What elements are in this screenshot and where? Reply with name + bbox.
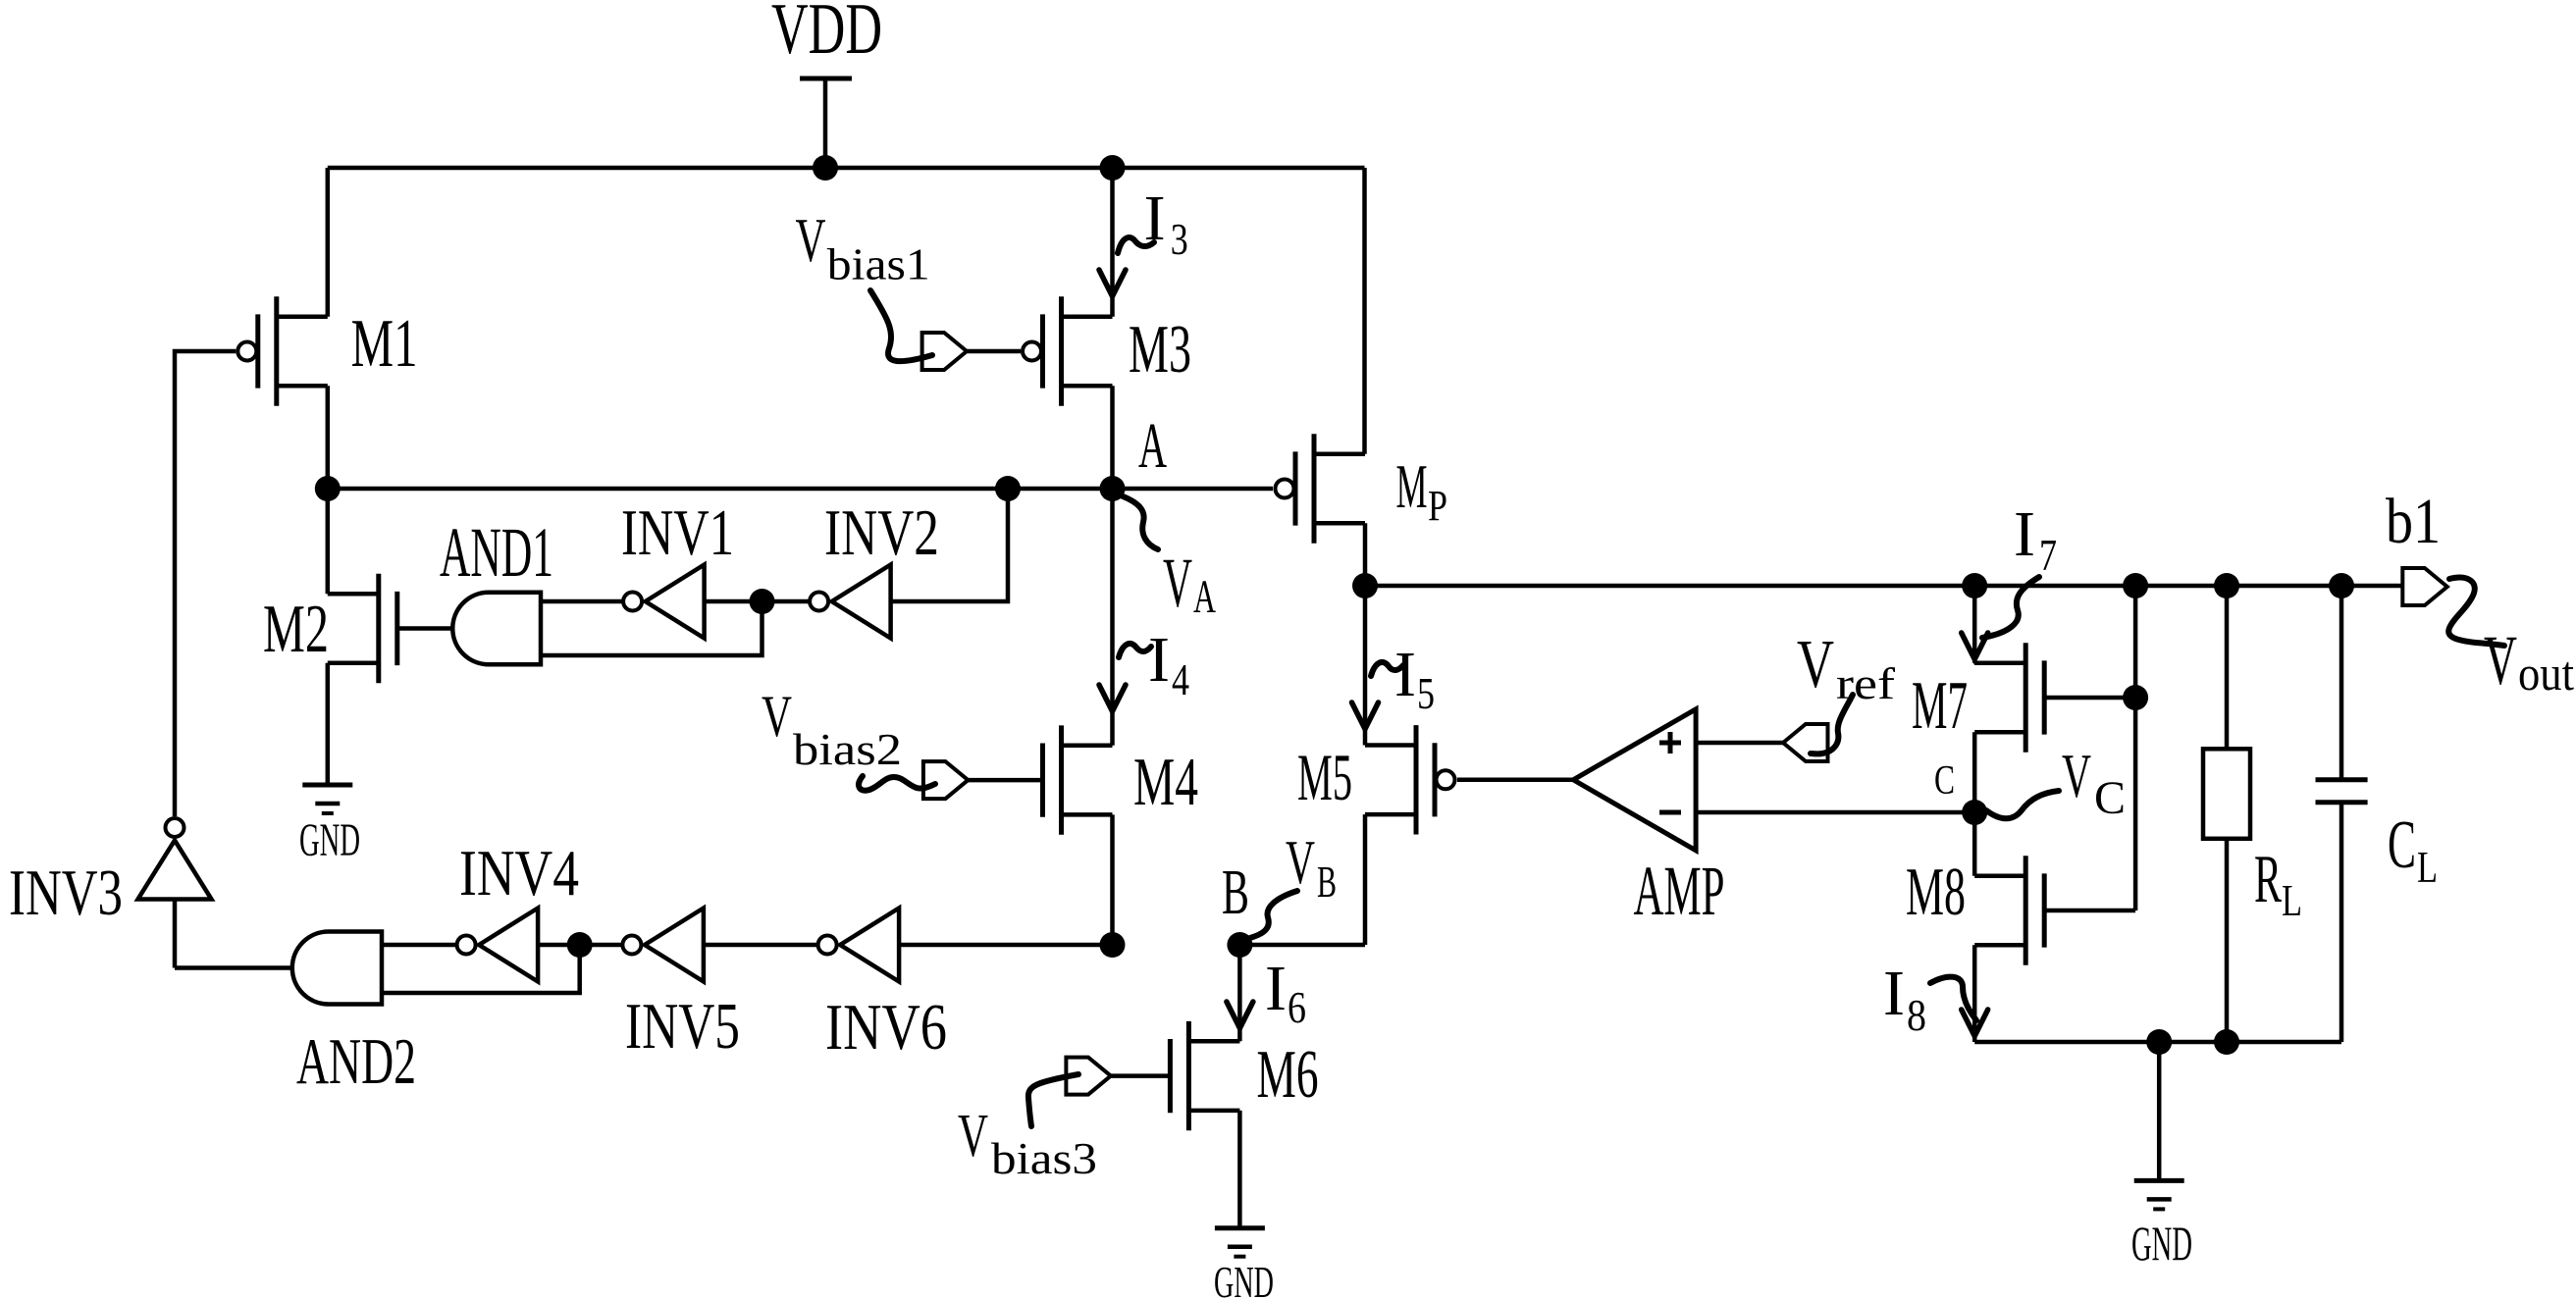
svg-text:V: V	[2484, 621, 2517, 700]
svg-text:3: 3	[1171, 214, 1188, 264]
wire INV6 out to INV5 in	[704, 943, 816, 948]
svg-text:L: L	[2417, 842, 2438, 892]
AND gate AND1	[452, 593, 541, 665]
wire MP drain to output rail	[1363, 523, 1368, 586]
svg-text:P: P	[1428, 482, 1447, 530]
svg-text:V: V	[1797, 627, 1834, 702]
wire INV4 out to AND2 input A	[382, 943, 455, 948]
svg-text:V: V	[958, 1103, 988, 1169]
svg-text:AND2: AND2	[296, 1025, 416, 1098]
wire INV1 in	[705, 599, 762, 604]
svg-text:B: B	[1317, 857, 1337, 907]
svg-text:8: 8	[1907, 990, 1926, 1040]
wire to AND2 input B	[382, 945, 580, 993]
transistor M5 (PMOS)	[1365, 725, 1455, 834]
wire node-A row	[328, 487, 1273, 492]
wire M8 gate	[2044, 909, 2135, 913]
node A junction	[1100, 476, 1126, 501]
wire Vbias1 to M3 gate	[967, 349, 1021, 354]
wire M3 drain to rail	[1110, 168, 1115, 317]
svg-text:M2: M2	[263, 592, 329, 667]
wire AND2 out	[175, 965, 292, 970]
wire INV4 in	[538, 943, 580, 948]
svg-text:INV6: INV6	[825, 991, 947, 1064]
svg-text:GND: GND	[299, 814, 360, 866]
op-amp AMP	[1573, 709, 1696, 851]
junction A-row/INV2	[995, 476, 1021, 501]
wire RL to bottom	[2225, 839, 2230, 1042]
wire gate column M7/M8	[2133, 586, 2138, 910]
junction VDD-rail	[813, 155, 838, 181]
junction M7-gate	[2123, 685, 2148, 710]
svg-text:VDD: VDD	[771, 0, 882, 70]
lead-line Vbias1	[870, 290, 932, 361]
svg-text:I: I	[2014, 498, 2035, 570]
lead-line VC	[1986, 791, 2059, 818]
wire M7 gate	[2044, 696, 2135, 701]
svg-text:M4: M4	[1133, 745, 1198, 820]
wire VDD top rail	[328, 166, 1365, 171]
lead-line Vout	[2448, 578, 2504, 646]
svg-text:V: V	[1286, 827, 1315, 897]
lead-line I7	[1982, 577, 2039, 638]
junction bus-RL	[2214, 1029, 2239, 1055]
svg-text:V: V	[796, 205, 826, 275]
svg-text:AND1: AND1	[440, 513, 553, 592]
port Vbias1	[922, 333, 968, 370]
junction rail-RL	[2214, 573, 2239, 598]
port Vbias3	[1066, 1058, 1111, 1095]
capacitor CL	[2316, 777, 2368, 782]
wire node B row to INV6	[899, 943, 1112, 948]
wire AMP plus input	[1696, 741, 1783, 746]
svg-text:bias3: bias3	[991, 1133, 1097, 1183]
svg-text:INV3: INV3	[9, 857, 123, 929]
wire rail to M7 drain	[1972, 586, 1977, 663]
node B junction	[1227, 932, 1252, 958]
wire rail to RL	[2225, 586, 2230, 749]
AMP plus sign	[1659, 741, 1681, 746]
svg-text:4: 4	[1172, 654, 1189, 704]
wire M2 drain up	[326, 489, 331, 594]
wire M1 gate to INV3	[175, 351, 236, 816]
svg-text:AMP: AMP	[1634, 852, 1725, 930]
svg-text:INV5: INV5	[625, 990, 740, 1063]
inverter INV4	[457, 909, 538, 982]
svg-text:GND: GND	[1214, 1257, 1274, 1299]
ground below M2	[302, 785, 352, 813]
svg-text:INV1: INV1	[621, 496, 734, 569]
wire VDD stem	[823, 78, 828, 168]
wire AMP out to M5 gate	[1457, 778, 1573, 783]
wire Vbias3 to M6 gate	[1111, 1073, 1171, 1078]
wire Vbias2 to M4 gate	[968, 778, 1042, 783]
junction MP/M5/rail	[1352, 573, 1378, 598]
inverter INV6	[818, 909, 900, 982]
transistor M8 (NMOS)	[1974, 856, 2044, 964]
junction rail-M3	[1100, 155, 1126, 181]
svg-text:INV2: INV2	[824, 496, 939, 569]
wire output rail b1	[1365, 584, 2403, 589]
svg-text:V: V	[1163, 544, 1192, 622]
current arrow I4	[1099, 685, 1126, 711]
resistor RL	[2203, 749, 2250, 839]
svg-text:I: I	[1144, 182, 1166, 254]
VDD bar	[800, 77, 852, 81]
svg-text:I: I	[1148, 624, 1170, 696]
wire INV2 in from node A	[891, 489, 1008, 601]
junction INV4/INV5/AND2	[567, 932, 593, 958]
tilde I4	[1119, 644, 1151, 657]
ground below M6	[1215, 1228, 1265, 1257]
svg-text:bias1: bias1	[827, 238, 930, 288]
wire output rail to M5 drain	[1363, 586, 1368, 746]
svg-text:I: I	[1265, 953, 1287, 1024]
lead-line I8	[1930, 977, 1976, 1020]
junction rail-gates	[2123, 573, 2148, 598]
port b1	[2402, 568, 2447, 605]
wire INV1 out to AND1 input A	[541, 599, 622, 604]
lead-line Vbias3	[1028, 1074, 1078, 1126]
current arrow I5	[1352, 702, 1379, 729]
svg-text:C: C	[2388, 807, 2416, 883]
transistor MP (PMOS pass device)	[1276, 434, 1366, 543]
transistor M2 (NMOS)	[328, 574, 397, 683]
svg-text:7: 7	[2039, 530, 2057, 580]
transistor M6 (NMOS)	[1170, 1021, 1239, 1130]
svg-text:C: C	[2094, 772, 2126, 824]
transistor M3 (PMOS)	[1023, 296, 1113, 405]
svg-text:6: 6	[1288, 982, 1306, 1032]
svg-text:M5: M5	[1297, 740, 1352, 814]
transistor M4 (NMOS)	[1043, 725, 1113, 834]
svg-text:M7: M7	[1912, 668, 1968, 744]
wire M6 source to ground	[1237, 1111, 1242, 1228]
inverter INV5	[622, 909, 704, 982]
port Vref	[1783, 724, 1828, 761]
wire INV5 out	[580, 943, 621, 948]
transistor M7 (NMOS)	[1974, 643, 2044, 752]
ground bottom right	[2134, 1180, 2184, 1209]
svg-text:out: out	[2518, 646, 2574, 701]
wire rail to MP source	[1362, 168, 1367, 454]
AND gate AND2	[292, 932, 382, 1005]
wire node A to M4 drain	[1110, 489, 1115, 746]
junction rail-CL	[2329, 573, 2354, 598]
inverter INV3	[138, 818, 212, 900]
inverter INV1	[623, 565, 705, 639]
current arrow I7	[1962, 633, 1988, 659]
tilde I5	[1371, 662, 1403, 676]
lead-line Vbias2	[859, 776, 935, 791]
svg-text:M6: M6	[1257, 1037, 1319, 1113]
svg-text:A: A	[1138, 410, 1167, 482]
wire M1 drain to rail	[326, 168, 331, 317]
wire M5 source down	[1363, 814, 1368, 945]
svg-text:M3: M3	[1129, 312, 1191, 388]
svg-text:R: R	[2254, 842, 2282, 917]
wire INV2 out	[762, 599, 809, 604]
lead-line Vref	[1811, 695, 1853, 753]
lead-line VB	[1246, 891, 1297, 939]
current arrow I3	[1099, 270, 1126, 296]
wire to AND1 input B	[541, 601, 762, 655]
svg-text:INV4: INV4	[459, 837, 579, 909]
svg-text:ref: ref	[1836, 658, 1896, 708]
tilde I3	[1118, 237, 1154, 253]
lead-line VA	[1121, 495, 1158, 549]
AMP minus sign	[1659, 810, 1681, 815]
svg-text:b1: b1	[2386, 486, 2441, 557]
port Vbias2	[923, 761, 969, 799]
svg-text:M8: M8	[1906, 855, 1966, 930]
transistor M1 (PMOS)	[237, 296, 328, 405]
svg-text:V: V	[2062, 741, 2091, 810]
junction M4-source/B-row	[1100, 932, 1126, 958]
svg-text:A: A	[1193, 571, 1216, 623]
wire INV3 in from AND2	[173, 900, 178, 968]
wire node B to M5 source column	[1239, 943, 1365, 948]
inverter INV2	[810, 565, 891, 639]
svg-text:5: 5	[1417, 668, 1435, 718]
wire M3 source to node A	[1110, 386, 1115, 489]
svg-text:I: I	[1394, 639, 1416, 710]
current arrow I8	[1962, 1010, 1988, 1036]
wire M8 source down	[1972, 945, 1977, 1042]
wire AMP minus input to node C	[1696, 810, 1974, 815]
svg-text:C: C	[1934, 758, 1955, 804]
wire bottom ground bus	[1974, 1040, 2341, 1045]
wire CL to bottom	[2339, 803, 2344, 1042]
junction rail-M7	[1962, 573, 1987, 598]
wire M4 source to B row	[1110, 814, 1115, 945]
wire M2 source to ground	[326, 663, 331, 785]
wire rail to CL	[2339, 586, 2344, 780]
wire M7 source to node C to M8 drain	[1972, 732, 1977, 875]
svg-text:bias2: bias2	[793, 724, 902, 774]
junction bus-GND	[2146, 1029, 2172, 1055]
wire M1 source down	[326, 386, 331, 489]
wire bus to ground	[2157, 1042, 2162, 1180]
junction INV1/INV2/AND1	[750, 589, 775, 614]
junction M1/M2/A-row	[315, 476, 341, 501]
svg-text:B: B	[1222, 857, 1249, 928]
wire AND1 out to M2 gate	[397, 626, 452, 631]
svg-text:M: M	[1396, 451, 1428, 521]
wire node B to M6 drain	[1237, 945, 1242, 1041]
svg-text:GND: GND	[2131, 1216, 2192, 1271]
svg-text:M1: M1	[351, 306, 418, 382]
svg-text:I: I	[1883, 958, 1905, 1029]
svg-text:V: V	[762, 684, 792, 749]
current arrow I6	[1227, 1002, 1253, 1028]
svg-text:L: L	[2282, 875, 2302, 925]
node C junction	[1962, 800, 1987, 825]
